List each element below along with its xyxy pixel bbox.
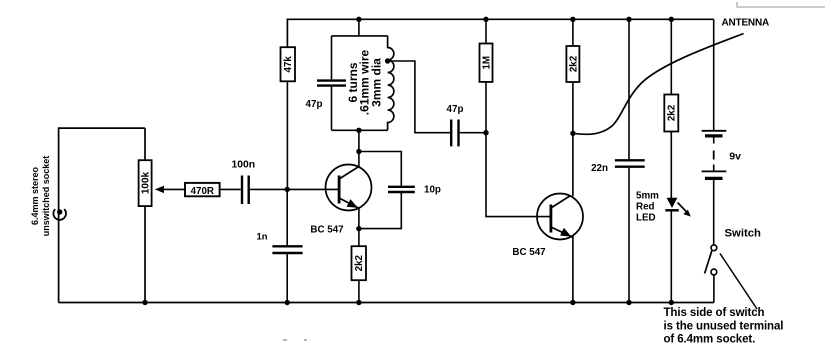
svg-text:100k: 100k	[141, 171, 152, 194]
wire tank feed	[358, 19, 360, 36]
wire tank left upper	[331, 36, 333, 80]
node 1M junction	[483, 130, 488, 135]
svg-text:47k: 47k	[283, 56, 294, 73]
resistor 1M	[480, 44, 493, 82]
svg-text:10p: 10p	[424, 185, 441, 196]
wire 2k2 to LED	[670, 132, 672, 199]
LED D1	[665, 198, 691, 217]
wire socket loop left vertical	[59, 128, 145, 302]
svg-text:of 6.4mm socket.: of 6.4mm socket.	[664, 334, 756, 344]
wire 2k2 top (Q2 collector)	[572, 19, 574, 46]
node 1M top rail	[483, 17, 488, 22]
wire Q2 collector	[572, 82, 574, 196]
svg-text:3mm dia: 3mm dia	[369, 58, 383, 107]
svg-text:Red: Red	[636, 202, 655, 213]
svg-text:1M: 1M	[482, 56, 493, 70]
label 5mm Red LED	[636, 191, 659, 224]
svg-text:Switch: Switch	[725, 228, 762, 240]
node collector 10p junction	[356, 149, 361, 154]
capacitor 47p (coupling)	[451, 120, 458, 147]
svg-text:is the unused terminal: is the unused terminal	[664, 321, 784, 333]
node coil tap	[385, 58, 390, 63]
scan artifact line top right	[737, 2, 825, 7]
switch SW1	[705, 245, 717, 275]
wire 22n top	[628, 19, 630, 159]
wire ground rail	[59, 302, 714, 304]
node antenna junction	[570, 131, 575, 136]
node LED ground	[669, 300, 674, 305]
svg-text:2k2: 2k2	[667, 104, 678, 121]
transistor Q2 BC547	[537, 194, 583, 240]
svg-text:5mm: 5mm	[636, 191, 659, 202]
wire tank top	[332, 35, 388, 37]
wire 1M node to Q2 base	[486, 133, 550, 217]
capacitor 100n	[242, 176, 249, 205]
node LED branch top rail	[669, 17, 674, 22]
wire Q1 collector	[358, 130, 360, 167]
wire Q2 emitter	[572, 236, 574, 303]
wire 2k2 to ground	[358, 280, 360, 302]
battery BT1 9v	[702, 131, 727, 179]
socket contact (6.4mm socket)	[53, 209, 66, 220]
svg-text:22n: 22n	[591, 163, 608, 174]
wire 1M top	[485, 19, 487, 43]
svg-text:1n: 1n	[256, 232, 267, 243]
resistor 2k2 (Q2 collector)	[566, 46, 579, 82]
wire pot bottom	[144, 206, 146, 302]
potentiometer VR1 100k	[139, 160, 152, 206]
node 22n ground	[626, 300, 631, 305]
svg-text:9v: 9v	[729, 151, 741, 163]
scan speck bottom	[283, 339, 307, 341]
inductor L1 coil	[388, 36, 394, 130]
node tank bottom junction	[356, 128, 361, 133]
resistor 2k2 (LED branch)	[664, 95, 678, 132]
wire LED to ground	[670, 210, 672, 302]
node pot bottom junction	[142, 300, 147, 305]
svg-text:47p: 47p	[306, 99, 323, 110]
svg-text:100n: 100n	[232, 160, 255, 171]
node emitter junction	[356, 226, 361, 231]
wire 10p top branch	[359, 152, 401, 186]
resistor 2k2 (Q1 emitter)	[352, 246, 367, 280]
svg-text:BC 547: BC 547	[310, 225, 344, 236]
wire LED branch top	[670, 19, 672, 94]
capacitor 47p (tank)	[317, 81, 346, 86]
resistor 470R	[185, 183, 220, 197]
wire base node to 1n	[286, 189, 288, 245]
wire 1M bottom	[485, 82, 487, 133]
wire antenna curve	[573, 34, 744, 135]
wire battery top	[713, 19, 715, 130]
svg-text:unswitched socket: unswitched socket	[41, 156, 51, 237]
svg-text:2k2: 2k2	[354, 254, 365, 271]
note this side of switch	[664, 307, 784, 344]
svg-text:470R: 470R	[191, 186, 214, 197]
wire 1n to ground	[286, 254, 288, 303]
node base junction	[285, 187, 290, 192]
wire 100n to Q1 base	[250, 188, 338, 190]
wire top supply rail	[287, 19, 713, 47]
wire coil tap to 47p	[388, 61, 450, 133]
wire 47p to 1M node	[460, 132, 486, 134]
leader line to switch note	[720, 254, 757, 310]
capacitor 22n	[615, 160, 645, 166]
wire switch to ground rail	[713, 275, 715, 303]
svg-text:BC 547: BC 547	[512, 247, 546, 258]
wire tank bottom	[332, 129, 388, 131]
svg-text:47p: 47p	[447, 104, 464, 115]
svg-text:2k2: 2k2	[568, 55, 579, 72]
wire 47k bottom to base node	[286, 81, 288, 189]
node 2k2 ground junction	[356, 300, 361, 305]
wire tank left lower	[331, 86, 333, 130]
wire 470R to 100n	[220, 188, 241, 190]
wire pot top	[144, 128, 146, 160]
node Q2 collector top rail	[570, 17, 575, 22]
node 1n ground junction	[285, 300, 290, 305]
label 6.4mm stereo unswitched socket	[30, 156, 51, 237]
svg-text:This side of switch: This side of switch	[664, 307, 765, 319]
wire Q1 emitter	[358, 209, 360, 247]
svg-text:6.4mm stereo: 6.4mm stereo	[30, 166, 40, 225]
resistor R 47k	[281, 47, 296, 81]
node Q2 emitter ground	[570, 300, 575, 305]
transistor Q1 BC547	[326, 165, 372, 211]
label 6 turns .61mm wire 3mm dia	[346, 49, 384, 115]
svg-text:ANTENNA: ANTENNA	[722, 18, 770, 29]
wire battery to switch	[713, 180, 715, 245]
wire 22n bottom	[628, 168, 630, 303]
capacitor 10p	[388, 187, 415, 192]
node 22n top rail	[626, 17, 631, 22]
svg-text:LED: LED	[636, 213, 656, 224]
wire 10p bottom branch	[359, 193, 401, 229]
wiper arrow into pot	[155, 186, 186, 193]
node tank feed junction	[356, 17, 361, 22]
capacitor 1n	[272, 246, 302, 253]
